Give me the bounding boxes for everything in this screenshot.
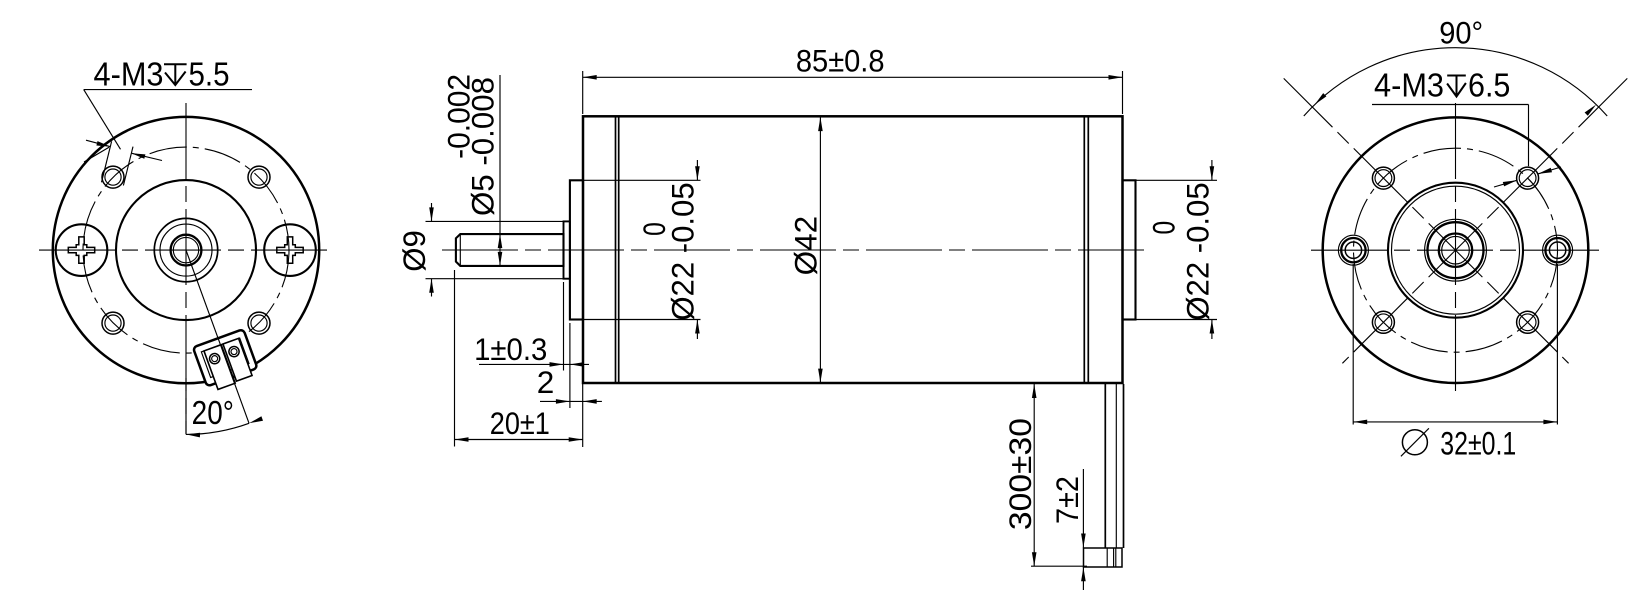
rear view vertical centerline xyxy=(1455,103,1457,396)
side view centerline xyxy=(442,249,1144,251)
front view horizontal centerline xyxy=(39,249,332,251)
dim Ø32 diameter symbol xyxy=(1402,430,1427,455)
dim Ø32 extension lines xyxy=(1352,264,1354,425)
front view bolt circle (dash-dot) xyxy=(83,147,289,353)
dim 2 extension line xyxy=(582,325,584,447)
front boss Ø9 xyxy=(564,221,570,278)
dim Ø9 arrows xyxy=(431,203,433,221)
rear diagonal centerline NW-SE xyxy=(1284,78,1569,363)
svg-text:1±0.3: 1±0.3 xyxy=(474,332,547,367)
dim front Ø22 arrows xyxy=(696,160,698,180)
label leader line (front) xyxy=(84,90,121,150)
front mounting screw left (phillips head) xyxy=(56,224,108,276)
depth symbol (rear label) xyxy=(1447,76,1466,97)
front shaft chamfer circle xyxy=(173,237,198,262)
rear view outer circle xyxy=(1323,117,1589,383)
rear mounting hole right xyxy=(1543,235,1573,265)
label underline (rear) xyxy=(1372,104,1529,106)
front mounting screw right (phillips head) xyxy=(264,224,316,276)
M3 hole dim arrows (front) xyxy=(86,140,111,147)
svg-text:5.5: 5.5 xyxy=(189,55,230,93)
svg-text:6.5: 6.5 xyxy=(1468,66,1510,104)
rear endcap joint xyxy=(1083,116,1085,383)
front view outer circle body Ø42 xyxy=(53,117,319,383)
dim 85 extension lines xyxy=(582,71,584,114)
front tapped hole M3 bottom-left xyxy=(102,312,124,334)
svg-text:Ø22 -0.05: Ø22 -0.05 xyxy=(665,182,700,320)
svg-text:2: 2 xyxy=(537,364,555,400)
dim 20° extension overlay xyxy=(185,378,187,434)
motor body outline xyxy=(583,116,1123,383)
dim 2 line+arrows xyxy=(540,400,602,402)
svg-text:Ø5 -0.008: Ø5 -0.008 xyxy=(465,77,500,216)
svg-text:Ø9: Ø9 xyxy=(397,230,432,271)
dim 1±0.3 extension lines xyxy=(563,282,565,371)
label leader drop (rear) xyxy=(1528,105,1530,167)
rear boss circle outer xyxy=(1388,183,1523,318)
cable end connector xyxy=(1084,548,1123,567)
dim Ø42 line xyxy=(819,117,821,383)
svg-text:20±1: 20±1 xyxy=(490,406,550,441)
rear hub circle Ø9 xyxy=(1428,222,1484,278)
dim 1±0.3 line+arrows xyxy=(479,363,589,365)
dim front Ø22 extension lines xyxy=(583,179,701,181)
dim 85 line xyxy=(583,76,1123,78)
front pilot boss Ø22 xyxy=(570,180,583,319)
rear shaft inner circle xyxy=(1442,236,1470,264)
front pilot boss circle Ø22 xyxy=(116,180,256,320)
svg-text:4-M3: 4-M3 xyxy=(1374,66,1444,104)
rear bolt circle Ø32 (dash-dot) xyxy=(1354,148,1558,352)
dim Ø9 extension lines xyxy=(426,220,564,222)
cable outline xyxy=(1104,384,1106,548)
M3 hole dim arrows (rear) xyxy=(1494,180,1517,187)
dim 20° arc with arrows xyxy=(186,423,249,434)
front hub circle Ø9 xyxy=(160,224,212,276)
front tapped hole M3 bottom-right xyxy=(248,312,270,334)
dim Ø5 leader xyxy=(499,75,501,266)
rear tapped hole M3 bottom-left xyxy=(1372,311,1394,333)
rear mounting hole left xyxy=(1338,235,1368,265)
dim 20±1 line xyxy=(455,439,583,441)
svg-text:20°: 20° xyxy=(192,395,234,432)
rear view horizontal centerline xyxy=(1311,249,1601,251)
front shaft circle Ø5 xyxy=(171,235,202,266)
front endcap joint xyxy=(615,116,617,383)
rear diagonal centerline NE-SW xyxy=(1342,78,1627,363)
svg-text:Ø42: Ø42 xyxy=(787,216,823,276)
dim 90° arc with arrows xyxy=(1304,48,1607,116)
dim 7±2 leader+arrows xyxy=(1082,469,1084,548)
rear tapped hole M3 top-left xyxy=(1372,167,1394,189)
label underline (front) xyxy=(84,89,252,91)
svg-text:4-M3: 4-M3 xyxy=(94,55,164,93)
dim 300±30 bottom extension xyxy=(1031,565,1087,567)
svg-text:85±0.8: 85±0.8 xyxy=(796,45,885,79)
rear tapped hole M3 top-right xyxy=(1517,167,1539,189)
svg-text:32±0.1: 32±0.1 xyxy=(1440,426,1516,462)
M3 hole dim extension lines (front) xyxy=(102,141,112,182)
front view vertical centerline xyxy=(185,103,187,434)
rear pilot boss Ø22 xyxy=(1123,180,1136,319)
connector J1 (2-pin, tilted 20°) xyxy=(161,241,274,433)
svg-text:0: 0 xyxy=(1146,221,1182,235)
depth symbol (front label) xyxy=(164,64,187,85)
front tapped hole M3 top-right xyxy=(248,166,270,188)
rear tapped hole M3 bottom-right xyxy=(1517,311,1539,333)
dim 20±1 extension line xyxy=(454,270,456,447)
front tapped hole M3 top-left xyxy=(102,166,124,188)
rear boss circle inner xyxy=(1392,186,1520,314)
dim rear Ø22 extension lines xyxy=(1136,179,1218,181)
dim Ø32 line xyxy=(1353,421,1557,423)
rear shaft circle xyxy=(1439,234,1472,267)
rear hub circle thin outer xyxy=(1425,219,1487,281)
svg-text:90°: 90° xyxy=(1439,16,1483,50)
dim rear Ø22 arrows xyxy=(1211,160,1213,180)
dim 300±30 line xyxy=(1033,384,1035,566)
front hub circle Ø10 xyxy=(154,218,217,281)
shaft Ø5 xyxy=(456,234,564,266)
svg-text:300±30: 300±30 xyxy=(1002,418,1038,530)
svg-text:7±2: 7±2 xyxy=(1051,476,1085,524)
svg-text:Ø22 -0.05: Ø22 -0.05 xyxy=(1180,182,1215,320)
